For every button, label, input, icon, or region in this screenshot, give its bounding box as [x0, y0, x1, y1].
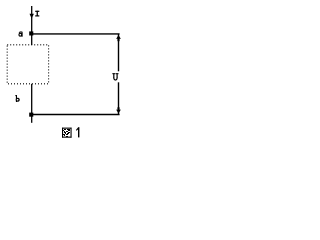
wire right vertical lower (below U label): [118, 82, 120, 114]
label I: [35, 11, 39, 17]
wire top current lead: [31, 6, 33, 34]
wire box bottom to node b: [31, 84, 33, 115]
wire top horizontal: [31, 33, 120, 35]
arrowhead U bottom (down): [116, 107, 121, 113]
node b junction dot: [29, 113, 33, 117]
label b: [15, 95, 19, 102]
label a: [18, 32, 22, 37]
label U: [112, 73, 118, 80]
dashed box one-port network: [7, 45, 48, 84]
arrowhead U top (up): [116, 35, 121, 41]
arrowhead current I (down): [30, 14, 34, 19]
node a junction dot: [29, 31, 33, 35]
caption glyph 1: [76, 127, 80, 137]
wire bottom horizontal: [31, 114, 120, 116]
caption glyph 图: [62, 128, 72, 138]
wire node a to box top: [31, 34, 33, 45]
wire right vertical upper (above U label): [118, 34, 120, 71]
wire stub below node b: [31, 115, 33, 123]
